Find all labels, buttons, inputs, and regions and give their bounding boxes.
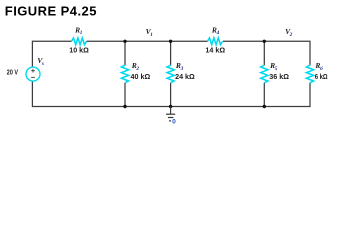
- svg-text:3: 3: [180, 66, 184, 72]
- svg-text:6: 6: [320, 66, 323, 72]
- svg-text:10 kΩ: 10 kΩ: [69, 47, 89, 54]
- resistor R2: [121, 65, 128, 83]
- svg-text:5: 5: [275, 66, 278, 72]
- wire: top rail middle segment (R1 to R4, node V1): [87, 40, 208, 42]
- node V2 label: [285, 27, 293, 38]
- wire: R2 branch lower stub: [124, 83, 126, 107]
- value label 20 V: [7, 70, 18, 77]
- svg-text:1: 1: [150, 32, 153, 38]
- svg-text:2: 2: [289, 32, 293, 38]
- junction dot: bottom of R2: [123, 105, 126, 108]
- svg-text:2: 2: [135, 66, 139, 72]
- value label 24 kΩ: [175, 74, 195, 81]
- wire: left branch with source Vs: [31, 41, 33, 107]
- voltage source Vs 20 V: [26, 67, 40, 81]
- figure title: [5, 3, 97, 18]
- svg-text:0: 0: [172, 118, 176, 125]
- wire: bottom rail: [32, 106, 310, 108]
- resistor R3: [167, 65, 174, 83]
- wire: right branch lower stub (from R6): [309, 83, 311, 107]
- label R2: [131, 61, 140, 72]
- label R5: [269, 61, 278, 72]
- svg-text:FIGURE P4.25: FIGURE P4.25: [5, 3, 97, 18]
- label R3: [175, 61, 184, 72]
- junction dot: bottom of R3 (ground node): [169, 105, 172, 108]
- wire: R2 branch upper stub: [124, 41, 126, 65]
- junction dot: top of R3 (node V1): [169, 40, 172, 43]
- value label 14 kΩ: [205, 47, 225, 54]
- ground node label 0: [172, 118, 176, 125]
- node V1 label: [146, 27, 154, 38]
- wire: R5 branch upper stub: [263, 41, 265, 65]
- value label 10 kΩ: [69, 47, 89, 54]
- value label 6 kΩ: [315, 74, 328, 81]
- label R4: [211, 25, 220, 36]
- junction dot: bottom of R5: [263, 105, 266, 108]
- resistor R6: [306, 65, 313, 83]
- label Vs: [37, 56, 44, 67]
- svg-text:24 kΩ: 24 kΩ: [175, 74, 195, 81]
- wire: top rail right segment (R4 to top-right corner, node V2): [223, 40, 310, 42]
- wire: R5 branch lower stub: [263, 83, 265, 107]
- svg-text:4: 4: [216, 30, 220, 36]
- svg-text:s: s: [41, 61, 44, 67]
- junction dot: top of R5 (node V2): [263, 40, 266, 43]
- svg-text:6 kΩ: 6 kΩ: [315, 74, 328, 81]
- wire: top rail left segment (source to R1): [32, 40, 71, 42]
- value label 40 kΩ: [131, 74, 151, 81]
- label R1: [74, 25, 83, 36]
- svg-text:40 kΩ: 40 kΩ: [131, 74, 151, 81]
- resistor R4: [208, 38, 223, 45]
- resistor R1: [72, 38, 87, 45]
- svg-text:20 V: 20 V: [7, 70, 18, 77]
- ground symbol node 0: [166, 107, 175, 121]
- wire: R3 branch upper stub: [170, 41, 172, 65]
- svg-text:36 kΩ: 36 kΩ: [269, 74, 289, 81]
- junction dot: top of R2 (node V1): [123, 40, 126, 43]
- wire: R3 branch lower stub: [170, 83, 172, 107]
- wire: right branch upper stub (to R6): [309, 41, 311, 65]
- svg-text:1: 1: [80, 30, 83, 36]
- svg-text:14 kΩ: 14 kΩ: [205, 47, 225, 54]
- value label 36 kΩ: [269, 74, 289, 81]
- label R6: [314, 61, 323, 72]
- resistor R5: [261, 65, 268, 83]
